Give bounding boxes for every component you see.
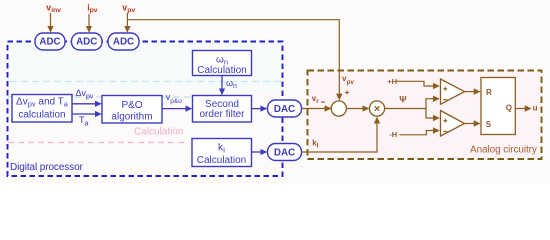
svg-text:S: S	[486, 120, 492, 129]
svg-text:Analog circuitry: Analog circuitry	[470, 145, 537, 156]
svg-text:order filter: order filter	[199, 109, 245, 120]
svg-text:Calculation: Calculation	[197, 155, 246, 166]
svg-text:Δvpv and Ta: Δvpv and Ta	[16, 97, 69, 109]
svg-text:u: u	[533, 104, 538, 113]
svg-text:R: R	[486, 88, 492, 97]
svg-text:ADC: ADC	[113, 37, 134, 48]
svg-text:ADC: ADC	[39, 37, 60, 48]
svg-text:Ψ: Ψ	[399, 94, 406, 104]
svg-text:Calculation: Calculation	[134, 127, 183, 138]
svg-text:Calculation: Calculation	[197, 65, 246, 76]
svg-text:algorithm: algorithm	[111, 112, 152, 123]
svg-text:DAC: DAC	[274, 148, 295, 159]
svg-text:Digital processor: Digital processor	[10, 162, 84, 173]
svg-text:+H: +H	[387, 77, 397, 86]
svg-text:P&O: P&O	[121, 100, 142, 111]
svg-text:DAC: DAC	[274, 104, 295, 115]
svg-text:Q: Q	[506, 104, 512, 113]
svg-text:ADC: ADC	[76, 37, 97, 48]
svg-text:calculation: calculation	[18, 110, 65, 121]
svg-text:-H: -H	[389, 130, 397, 139]
